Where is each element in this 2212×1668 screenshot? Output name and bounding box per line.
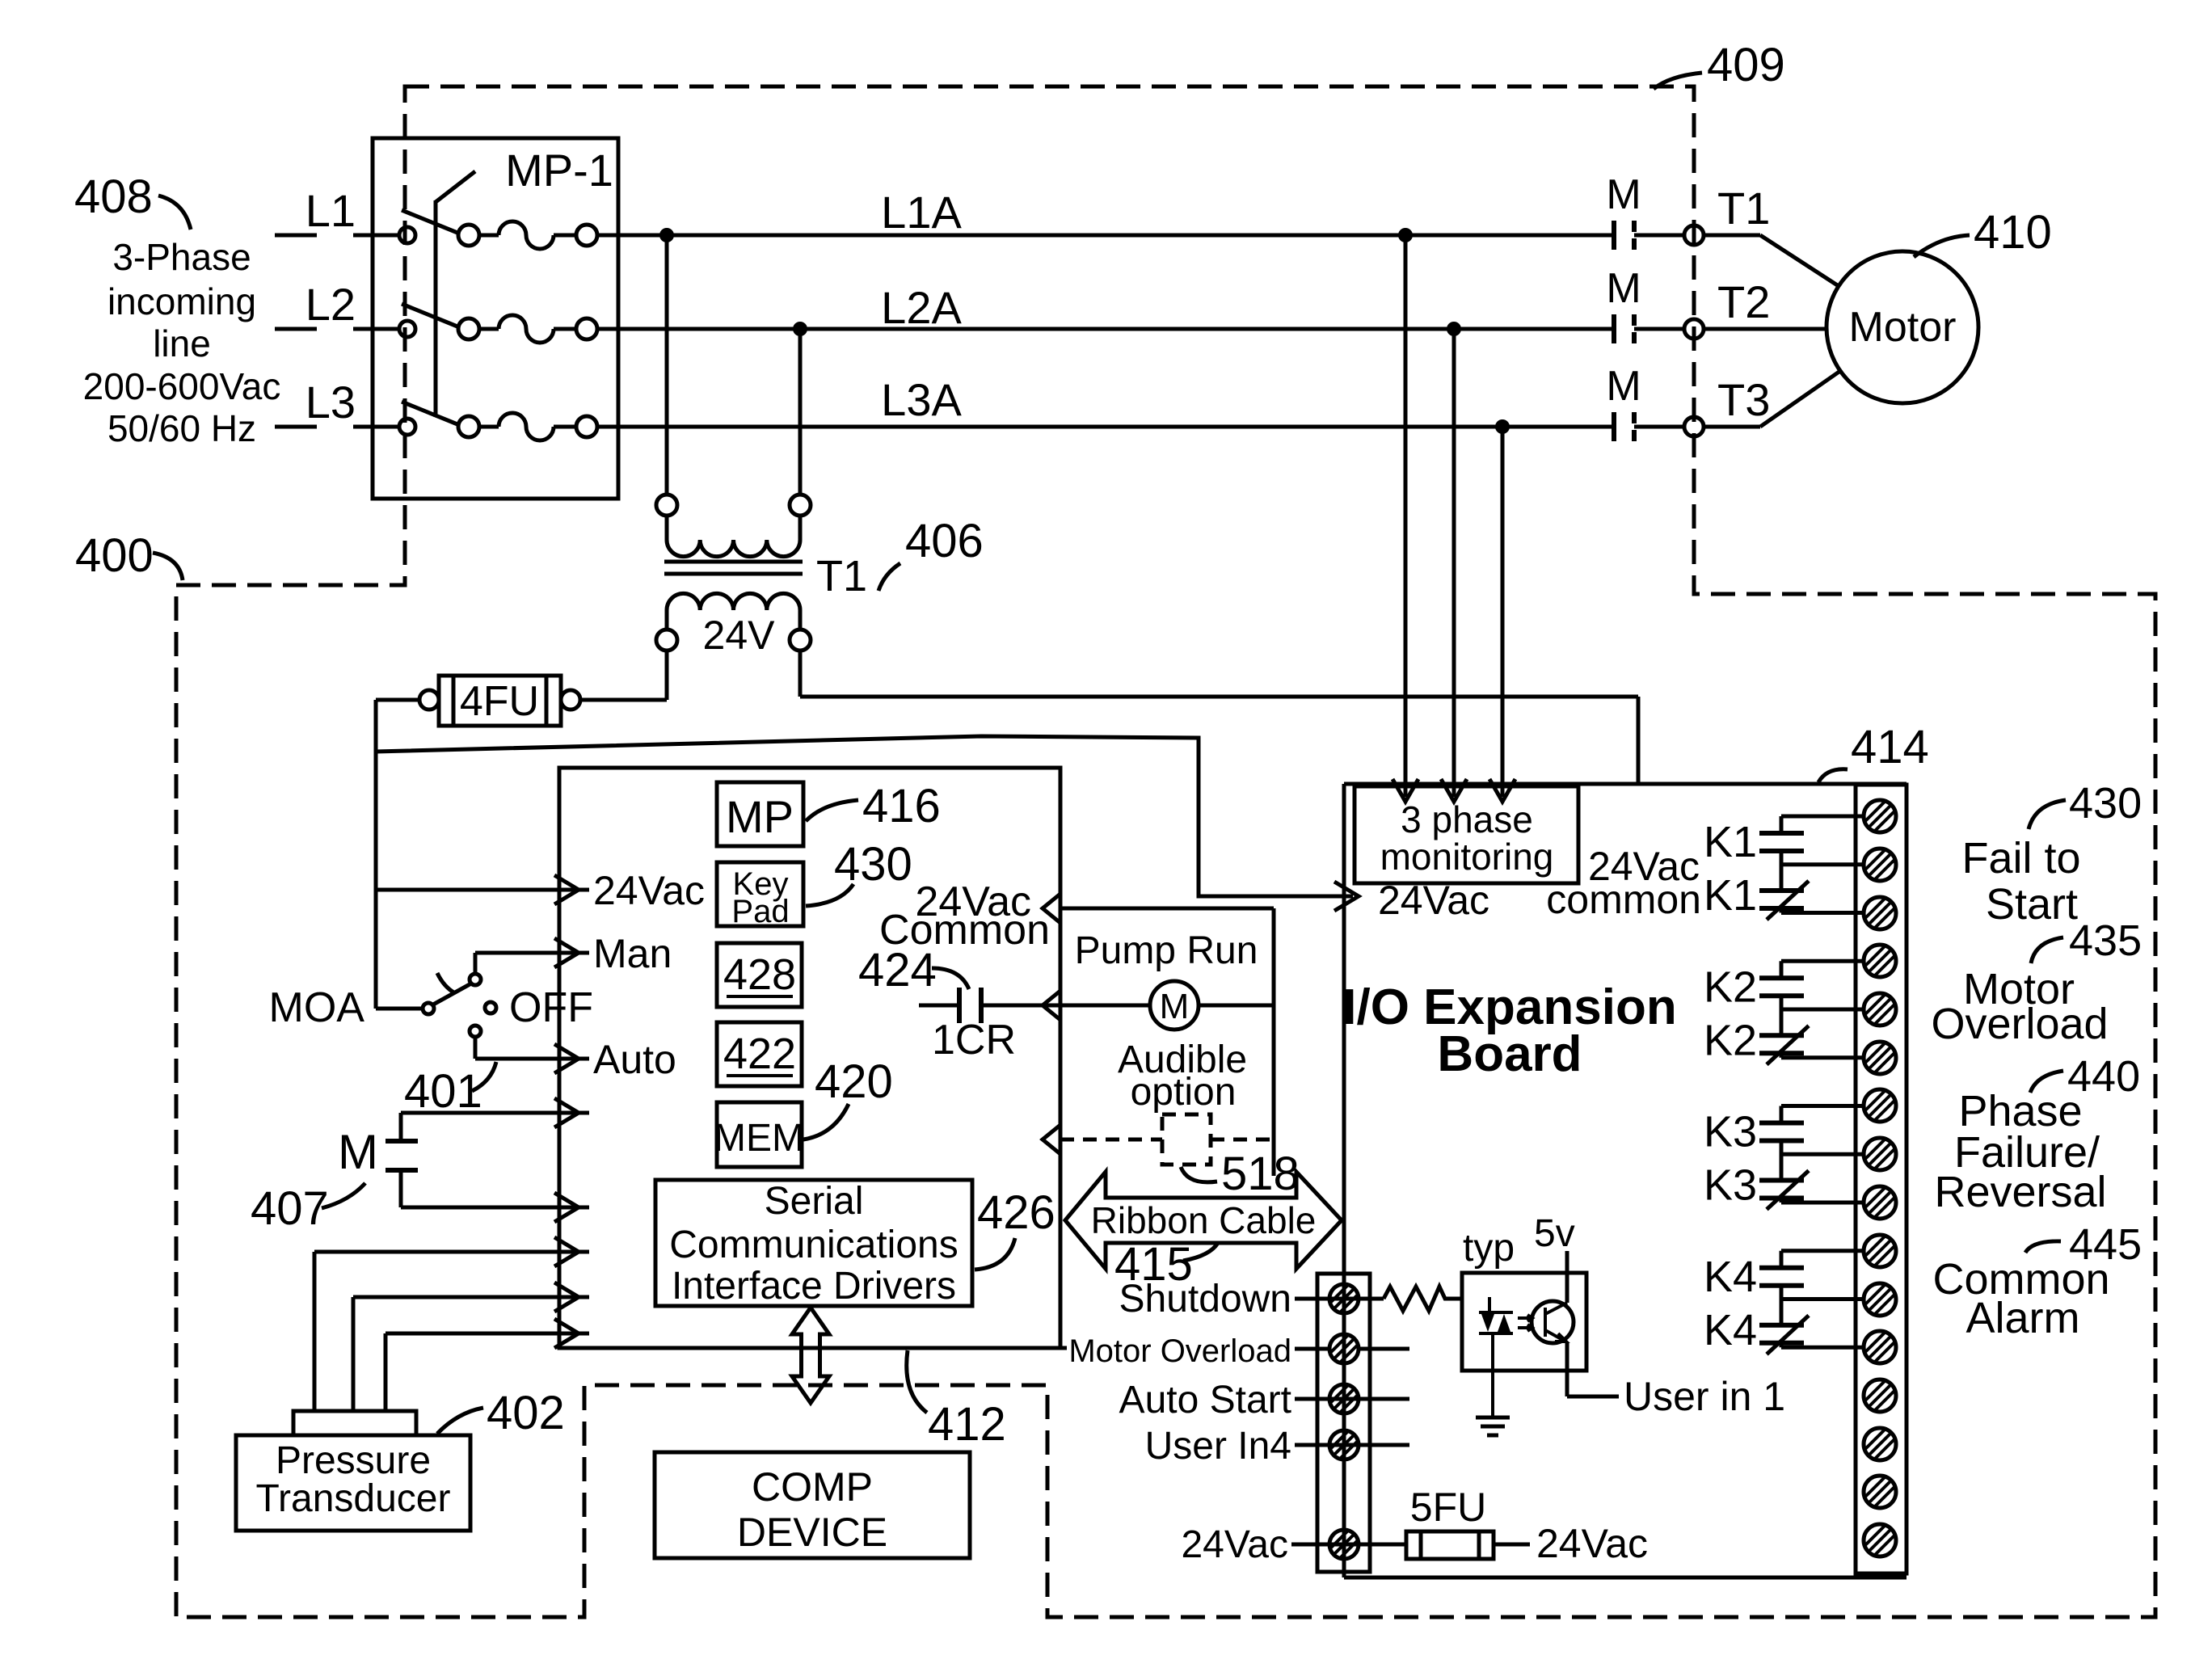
svg-text:Ribbon Cable: Ribbon Cable xyxy=(1091,1199,1317,1241)
3 phase monitoring block xyxy=(1355,786,1578,883)
terminal screw 13 xyxy=(1864,1379,1896,1412)
terminal screw 3 xyxy=(1864,897,1896,929)
wire L3A xyxy=(597,425,1612,429)
MP-1 operating link xyxy=(434,200,438,417)
pump run motor M xyxy=(1150,981,1199,1030)
svg-text:User in 1: User in 1 xyxy=(1624,1374,1785,1419)
svg-text:Interface Drivers: Interface Drivers xyxy=(672,1265,956,1308)
svg-text:435: 435 xyxy=(2069,916,2142,965)
svg-text:MP-1: MP-1 xyxy=(505,145,613,196)
svg-text:Motor Overload: Motor Overload xyxy=(1068,1333,1291,1369)
svg-text:Pad: Pad xyxy=(731,894,789,929)
svg-text:M: M xyxy=(338,1125,378,1179)
svg-text:common: common xyxy=(1546,877,1701,922)
svg-text:OFF: OFF xyxy=(509,984,593,1031)
svg-text:M: M xyxy=(1160,987,1190,1026)
I/O expansion board 414 xyxy=(1344,782,1907,786)
svg-text:416: 416 xyxy=(862,780,941,832)
svg-text:K4: K4 xyxy=(1704,1306,1757,1354)
wire Auto input xyxy=(474,1037,478,1059)
svg-text:typ: typ xyxy=(1463,1227,1515,1270)
svg-text:Start: Start xyxy=(1986,880,2078,929)
svg-text:T3: T3 xyxy=(1717,374,1770,425)
svg-text:Man: Man xyxy=(593,931,672,976)
svg-text:line: line xyxy=(153,322,211,364)
svg-text:3 phase: 3 phase xyxy=(1401,798,1533,840)
svg-text:L2A: L2A xyxy=(881,282,962,333)
wire T3 to motor xyxy=(1704,425,1760,429)
wire M contact upper xyxy=(401,1111,589,1115)
wire 24Vac bus to I/O board 24Vac input xyxy=(376,736,1353,896)
svg-text:K3: K3 xyxy=(1704,1161,1757,1210)
wire L2A tap to 3 phase monitoring xyxy=(1452,329,1456,797)
wire L3A tap to 3 phase monitoring xyxy=(1501,427,1505,797)
terminal screw 2 xyxy=(1864,849,1896,881)
wire Motor Overload input xyxy=(1359,1347,1409,1351)
svg-text:Reversal: Reversal xyxy=(1934,1168,2106,1216)
output terminal strip xyxy=(1856,785,1907,1573)
svg-text:L1: L1 xyxy=(305,185,356,236)
terminal screw 11 xyxy=(1864,1283,1896,1316)
relay contact K1 normally-open xyxy=(1781,815,1864,819)
transformer T1 406 xyxy=(656,495,677,516)
svg-text:428: 428 xyxy=(723,950,796,999)
svg-text:Transducer: Transducer xyxy=(256,1477,451,1520)
svg-text:400: 400 xyxy=(75,529,154,582)
ribbon cable 415 double arrow xyxy=(1065,1172,1342,1269)
svg-text:L3: L3 xyxy=(305,377,356,428)
wire 24Vac to controller input xyxy=(376,888,589,892)
resistor input xyxy=(1384,1287,1462,1311)
relay contact K4 normally-closed xyxy=(1759,1323,1804,1328)
svg-text:monitoring: monitoring xyxy=(1380,836,1554,878)
svg-text:K2: K2 xyxy=(1704,962,1757,1011)
svg-text:Shutdown: Shutdown xyxy=(1119,1278,1292,1320)
svg-text:DEVICE: DEVICE xyxy=(737,1510,887,1555)
svg-text:Serial: Serial xyxy=(765,1180,864,1223)
svg-text:518: 518 xyxy=(1221,1148,1300,1200)
contactor contact M for T2 xyxy=(1612,314,1616,343)
wire transducer signal 2 xyxy=(352,1297,356,1411)
svg-text:408: 408 xyxy=(74,171,153,223)
svg-text:MEM: MEM xyxy=(714,1117,804,1160)
svg-text:24V: 24V xyxy=(703,613,776,658)
svg-text:Alarm: Alarm xyxy=(1966,1294,2079,1342)
svg-text:L2: L2 xyxy=(305,279,356,330)
svg-text:406: 406 xyxy=(905,515,984,567)
wire 1CR to pump run motor xyxy=(981,1004,1150,1008)
svg-text:430: 430 xyxy=(2069,779,2142,828)
svg-text:401: 401 xyxy=(404,1065,482,1118)
svg-text:3-Phase: 3-Phase xyxy=(112,236,251,278)
svg-text:K1: K1 xyxy=(1704,871,1757,920)
svg-text:Auto: Auto xyxy=(593,1037,676,1082)
relay contact K3 normally-open xyxy=(1781,1104,1864,1108)
wire user in 1 xyxy=(1565,1342,1569,1396)
svg-text:COMP: COMP xyxy=(752,1464,873,1510)
controller board box xyxy=(559,768,1060,1348)
svg-text:T2: T2 xyxy=(1717,276,1770,327)
serial bus double arrow to comp device xyxy=(792,1308,829,1403)
relay contact K2 normally-open xyxy=(1781,959,1864,963)
svg-text:409: 409 xyxy=(1707,39,1785,91)
svg-text:1CR: 1CR xyxy=(932,1017,1016,1064)
wire 24Vac common xyxy=(1043,894,1060,923)
wire transducer signal 1 xyxy=(313,1252,317,1411)
svg-text:Overload: Overload xyxy=(1931,1000,2108,1048)
svg-text:User In4: User In4 xyxy=(1145,1425,1291,1468)
terminal screw 8 xyxy=(1864,1138,1896,1170)
MOA selector switch 401 xyxy=(376,1007,423,1011)
svg-text:M: M xyxy=(1606,265,1641,312)
svg-text:Communications: Communications xyxy=(669,1224,958,1266)
wire 4FU to 24Vac bus xyxy=(376,698,419,702)
svg-text:Fail to: Fail to xyxy=(1961,834,2080,882)
svg-text:T1: T1 xyxy=(1717,183,1770,234)
svg-text:K4: K4 xyxy=(1704,1253,1757,1301)
svg-text:410: 410 xyxy=(1974,206,2052,259)
memory MEM 420 xyxy=(717,1102,802,1167)
wire M contact lower xyxy=(399,1170,403,1207)
svg-text:L3A: L3A xyxy=(881,374,962,425)
svg-text:24Vac: 24Vac xyxy=(1536,1521,1648,1566)
svg-text:K1: K1 xyxy=(1704,818,1757,866)
contactor MP-1 box xyxy=(373,138,618,499)
terminal screw 16 xyxy=(1864,1524,1896,1556)
terminal screw 6 xyxy=(1864,1042,1896,1074)
svg-text:MOA: MOA xyxy=(269,984,365,1031)
input terminal strip xyxy=(1317,1274,1370,1572)
svg-text:50/60 Hz: 50/60 Hz xyxy=(107,407,256,449)
svg-text:MP: MP xyxy=(726,791,794,842)
relay contact K2 normally-closed xyxy=(1759,1033,1804,1038)
microprocessor MP 416 xyxy=(717,782,803,846)
wire transformer secondary right to I/O board 24Vac xyxy=(798,651,803,697)
svg-text:option: option xyxy=(1131,1071,1237,1114)
incoming line L3 xyxy=(275,425,317,429)
pressure transducer 402 xyxy=(293,1411,416,1435)
ground xyxy=(1491,1333,1494,1417)
svg-text:Board: Board xyxy=(1437,1026,1582,1082)
relay contact K4 normally-open xyxy=(1781,1249,1864,1253)
wire transducer signal 3 xyxy=(384,1333,388,1411)
terminal screw 14 xyxy=(1864,1428,1896,1460)
relay contact K3 normally-closed xyxy=(1759,1178,1804,1183)
terminal screw 15 xyxy=(1864,1476,1896,1508)
contactor contact M for T3 xyxy=(1612,412,1616,441)
svg-text:Auto Start: Auto Start xyxy=(1119,1379,1291,1422)
svg-text:incoming: incoming xyxy=(107,280,256,322)
MP-1 pole L1: contacts, blade, overload coil xyxy=(399,227,415,243)
junction dots on phase wires xyxy=(659,228,674,242)
svg-text:24Vac: 24Vac xyxy=(593,868,705,913)
svg-text:24Vac: 24Vac xyxy=(1378,878,1489,923)
block 428 xyxy=(717,943,802,1007)
svg-text:K2: K2 xyxy=(1704,1016,1757,1064)
svg-text:Pump Run: Pump Run xyxy=(1075,929,1258,972)
wire motor overload output xyxy=(1060,1346,1067,1350)
incoming line L2 xyxy=(275,327,317,331)
contactor contact M for T1 xyxy=(1612,221,1616,250)
svg-text:414: 414 xyxy=(1851,721,1929,773)
terminal screw 12 xyxy=(1864,1331,1896,1363)
wire transformer secondary left to fuse 4FU xyxy=(665,651,669,700)
svg-text:422: 422 xyxy=(723,1030,796,1078)
svg-text:430: 430 xyxy=(834,838,912,891)
terminal screw 1 xyxy=(1864,800,1896,832)
auxiliary contact M 407 xyxy=(386,1139,418,1144)
terminal screw 9 xyxy=(1864,1186,1896,1219)
svg-text:L1A: L1A xyxy=(881,187,962,238)
wire L2 tap to transformer primary xyxy=(798,329,803,495)
relay contact K1 normally-closed xyxy=(1759,888,1804,893)
incoming line L1 xyxy=(275,234,317,238)
MP-1 pole L2: contacts, blade, overload coil xyxy=(399,321,415,337)
wire L2A xyxy=(597,327,1612,331)
serial communications interface drivers 426 xyxy=(655,1180,972,1306)
svg-text:T1: T1 xyxy=(816,552,867,600)
wire pump run to ribbon bus xyxy=(1199,1004,1274,1008)
comp device 412 xyxy=(655,1452,970,1558)
terminal screw 7 xyxy=(1864,1089,1896,1122)
wire T1 to motor xyxy=(1704,234,1760,238)
svg-text:407: 407 xyxy=(251,1182,329,1235)
svg-text:M: M xyxy=(1606,363,1641,410)
svg-text:M: M xyxy=(1606,171,1641,218)
wire L1A tap to 3 phase monitoring xyxy=(1404,235,1408,797)
svg-text:402: 402 xyxy=(487,1387,565,1439)
svg-text:4FU: 4FU xyxy=(460,678,539,725)
svg-text:420: 420 xyxy=(815,1055,893,1108)
terminal screw 10 xyxy=(1864,1235,1896,1267)
MP-1 pole L3: contacts, blade, overload coil xyxy=(399,419,415,435)
svg-text:Pressure: Pressure xyxy=(276,1439,431,1482)
wire T2 to motor xyxy=(1704,327,1827,331)
fuse 4FU xyxy=(561,690,580,710)
wire Man input xyxy=(474,953,478,974)
svg-text:Motor: Motor xyxy=(1849,304,1957,351)
wire L1 tap to transformer primary xyxy=(665,235,669,495)
motor 410 xyxy=(1826,251,1978,403)
wire L1A xyxy=(597,234,1612,238)
svg-text:424: 424 xyxy=(858,944,937,996)
terminal T3 xyxy=(1634,425,1684,429)
terminal T2 xyxy=(1634,327,1684,331)
svg-text:5v: 5v xyxy=(1534,1212,1575,1255)
terminal T1 xyxy=(1634,234,1684,238)
svg-text:K3: K3 xyxy=(1704,1108,1757,1156)
terminal screw 4 xyxy=(1864,945,1896,977)
block 422 xyxy=(717,1022,802,1086)
svg-text:412: 412 xyxy=(928,1398,1006,1451)
wire 24Vac bus vertical xyxy=(374,700,378,1009)
KeyPad 430 xyxy=(717,862,803,926)
contact 1CR 424 xyxy=(919,1004,957,1008)
svg-text:426: 426 xyxy=(977,1186,1055,1239)
optocoupler input diodes xyxy=(1488,1297,1491,1312)
input terminal screws xyxy=(1329,1284,1359,1313)
svg-text:24Vac: 24Vac xyxy=(1181,1523,1288,1566)
svg-text:5FU: 5FU xyxy=(1410,1485,1486,1530)
terminal screw 5 xyxy=(1864,993,1896,1026)
svg-text:200-600Vac: 200-600Vac xyxy=(83,365,281,407)
